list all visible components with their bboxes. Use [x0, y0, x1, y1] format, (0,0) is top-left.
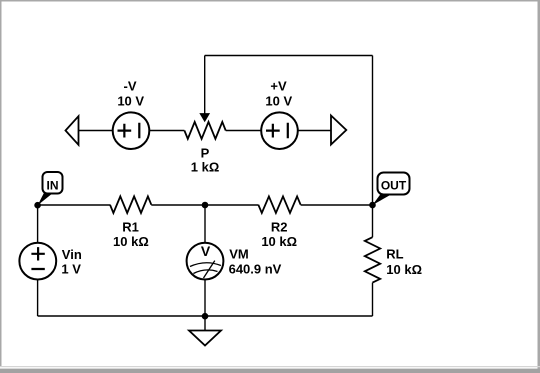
svg-text:1 V: 1 V	[61, 261, 81, 276]
svg-text:R1: R1	[122, 220, 139, 235]
wire bottom rail	[38, 315, 373, 317]
wire +V source to right arrow	[298, 130, 331, 132]
wire R1 to VM node	[151, 204, 258, 206]
node VM junction dot	[202, 202, 209, 209]
wire RL to bottom rail	[372, 283, 374, 316]
wire wiper top horizontal	[205, 55, 373, 57]
svg-text:+V: +V	[270, 79, 287, 94]
voltage source V- (-V 10 V)	[113, 112, 150, 149]
ground	[189, 331, 221, 346]
node OUT junction dot	[369, 202, 376, 209]
wire R2 to OUT node	[301, 204, 373, 206]
svg-text:V: V	[201, 243, 211, 259]
svg-text:P: P	[201, 146, 210, 161]
wire OUT node to RL	[372, 205, 374, 237]
svg-text:10 kΩ: 10 kΩ	[113, 234, 149, 249]
wire left arrow to -V source	[79, 130, 113, 132]
node IN junction dot	[34, 202, 41, 209]
svg-text:OUT: OUT	[381, 179, 407, 193]
svg-text:Vin: Vin	[62, 247, 82, 262]
resistor R1	[110, 196, 151, 213]
port arrow left (input pin)	[66, 116, 79, 145]
resistor RL (vertical)	[365, 237, 380, 282]
port arrow right (output pin)	[331, 116, 346, 145]
voltage source V+ (+V 10 V)	[261, 112, 298, 149]
svg-text:10 V: 10 V	[117, 94, 144, 109]
svg-text:10 kΩ: 10 kΩ	[261, 234, 297, 249]
svg-text:10 kΩ: 10 kΩ	[386, 262, 422, 277]
node flag IN	[38, 172, 63, 205]
svg-text:VM: VM	[229, 247, 249, 262]
wire ground stub	[204, 316, 206, 331]
wire Vin to bottom rail	[37, 279, 39, 316]
wire VM top	[204, 205, 206, 243]
voltage source Vin	[19, 243, 56, 280]
node ground junction dot	[202, 313, 209, 320]
wire wiper vertical	[204, 56, 206, 117]
svg-text:RL: RL	[386, 246, 403, 261]
node flag OUT	[373, 173, 410, 206]
svg-text:R2: R2	[271, 220, 288, 235]
wire potentiometer to +V source	[226, 130, 262, 132]
svg-text:640.9 nV: 640.9 nV	[229, 262, 282, 277]
resistor R2	[258, 196, 300, 213]
svg-text:10 V: 10 V	[265, 94, 292, 109]
wire -V source to potentiometer	[149, 130, 184, 132]
wire IN node down to Vin	[37, 205, 39, 243]
svg-text:1 kΩ: 1 kΩ	[191, 160, 220, 175]
wire right vertical to OUT	[372, 56, 374, 206]
potentiometer wiper arrowhead	[200, 114, 209, 122]
svg-text:IN: IN	[47, 179, 59, 193]
wire VM bottom	[204, 279, 206, 316]
wire IN node to R1	[38, 204, 110, 206]
voltmeter VM	[187, 243, 224, 280]
svg-text:-V: -V	[124, 79, 137, 94]
potentiometer P body	[184, 122, 225, 139]
